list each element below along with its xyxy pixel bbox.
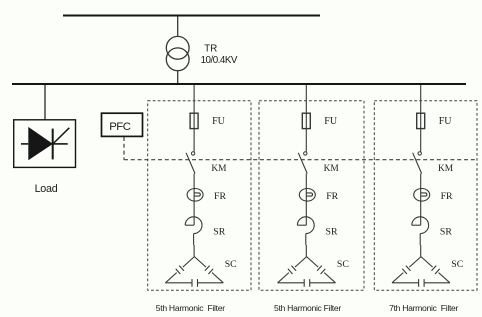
svg-text:FR: FR [326, 191, 338, 202]
top bus bar [63, 15, 320, 17]
wire: reactor to capacitor bank (branch 1) [193, 234, 195, 245]
wire through fuse FU (branch 1) [193, 113, 195, 128]
load box [14, 120, 76, 168]
svg-text:SR: SR [440, 226, 452, 237]
capacitor bank SC delta right side (branch 3) [421, 257, 433, 268]
thermal relay FR circle (branch 2) [299, 189, 315, 202]
svg-text:TR: TR [204, 43, 217, 54]
svg-text:FR: FR [441, 191, 453, 202]
wire: contactor to thermal relay (branch 3) [420, 174, 422, 189]
svg-text:FU: FU [324, 116, 338, 127]
fuse FU (branch 2) [302, 113, 310, 128]
fuse FU (branch 3) [417, 113, 425, 128]
capacitor bank SC delta right side (branch 1) [194, 257, 206, 268]
capacitor bank SC delta left side (branch 1) [183, 257, 195, 268]
svg-text:FU: FU [212, 116, 226, 127]
thermal relay FR heater element (branch 3) [421, 193, 427, 196]
dashed enclosure box, filter branch 1 [148, 101, 251, 291]
wire through thermal relay FR (branch 1) [193, 189, 195, 202]
svg-text:KM: KM [438, 164, 454, 174]
svg-text:5th Harmonic Filter: 5th Harmonic Filter [274, 303, 341, 313]
reactor SR radius line (branch 3) [412, 224, 421, 226]
thyristor cathode lead [53, 143, 68, 145]
capacitor bank SC delta bottom side (branch 1) [165, 282, 192, 284]
PFC controller box [102, 113, 143, 136]
wire: transformer TR to lower bus [177, 71, 179, 84]
reactor SR arc (branch 1) [185, 217, 202, 234]
reactor SR radius line (branch 2) [297, 224, 306, 226]
contactor KM blade (branch 1) [186, 153, 195, 174]
wire: contactor to thermal relay (branch 2) [305, 174, 307, 189]
thyristor anode lead [21, 143, 28, 145]
svg-text:SR: SR [213, 226, 225, 237]
reactor SR arc (branch 3) [412, 217, 429, 234]
svg-text:FU: FU [439, 116, 453, 127]
contactor KM blade (branch 2) [298, 153, 307, 174]
dashed control wire: horizontal to filter contactors [124, 159, 477, 161]
thermal relay FR heater element (branch 1) [194, 193, 200, 196]
dashed enclosure box, filter branch 2 [259, 101, 364, 291]
lower bus bar (0.4kV) [12, 83, 466, 85]
wire: fuse to contactor (branch 1) [193, 129, 195, 152]
svg-text:Load: Load [35, 183, 58, 195]
contactor KM fixed contact circle (branch 1) [191, 152, 194, 155]
thyristor cathode bar [52, 129, 54, 160]
thyristor gate line [53, 128, 69, 144]
capacitor bank SC delta right side (branch 2) [307, 257, 319, 268]
svg-text:PFC: PFC [109, 121, 131, 133]
svg-text:FR: FR [214, 191, 226, 202]
capacitor plates left side (branch 1) [179, 266, 184, 271]
thermal relay FR circle (branch 1) [187, 189, 203, 202]
wire: thermal relay down into reactor centre (branch 2) [305, 201, 307, 225]
capacitor plates left side (branch 2) [291, 266, 296, 271]
transformer TR secondary winding [166, 48, 189, 71]
wire: thermal relay down into reactor centre (branch 1) [193, 201, 195, 225]
capacitor plates right side (branch 2) [317, 266, 322, 271]
transformer TR primary winding [166, 36, 189, 59]
wire through fuse FU (branch 2) [305, 113, 307, 128]
contactor KM blade (branch 3) [413, 153, 422, 174]
wire: lower bus to load [44, 85, 46, 120]
svg-text:10/0.4KV: 10/0.4KV [201, 55, 238, 66]
wire: fuse to contactor (branch 3) [420, 129, 422, 152]
thermal relay FR heater element (branch 2) [306, 193, 312, 196]
svg-text:KM: KM [211, 164, 227, 174]
svg-text:SC: SC [337, 259, 349, 270]
capacitor plates right side (branch 1) [205, 266, 210, 271]
capacitor plates bottom side (branch 2) [303, 279, 305, 287]
capacitor plates left side (branch 3) [406, 266, 411, 271]
wire through thermal relay FR (branch 3) [420, 189, 422, 202]
contactor KM fixed contact circle (branch 3) [418, 152, 421, 155]
contactor KM fixed contact circle (branch 2) [304, 152, 307, 155]
reactor SR radius line (branch 1) [185, 224, 194, 226]
svg-text:SR: SR [326, 226, 338, 237]
wire through fuse FU (branch 3) [420, 113, 422, 128]
svg-text:SC: SC [451, 259, 463, 270]
wire: fuse to contactor (branch 2) [305, 129, 307, 152]
fuse FU (branch 1) [190, 113, 198, 128]
wire: lower bus into branch 2 [305, 85, 307, 113]
svg-text:5th Harmonic Filter: 5th Harmonic Filter [156, 303, 225, 313]
capacitor bank SC delta left side (branch 3) [409, 257, 421, 268]
svg-text:SC: SC [225, 259, 237, 270]
svg-text:KM: KM [324, 164, 340, 174]
capacitor bank SC delta bottom side (branch 2) [278, 282, 305, 284]
wire: thermal relay down into reactor centre (branch 3) [420, 201, 422, 225]
capacitor bank SC delta left side (branch 2) [295, 257, 307, 268]
capacitor bank SC delta bottom side (branch 3) [392, 282, 419, 284]
thermal relay FR circle (branch 3) [414, 189, 430, 202]
reactor SR arc (branch 2) [297, 217, 314, 234]
dashed control wire: PFC down [123, 137, 125, 160]
dashed enclosure box, filter branch 3 [374, 101, 477, 291]
capacitor plates bottom side (branch 3) [418, 279, 420, 287]
wire: lower bus into branch 3 [420, 85, 422, 113]
wire through thermal relay FR (branch 2) [305, 189, 307, 202]
wire: top bus to transformer TR [177, 17, 179, 37]
capacitor plates right side (branch 3) [432, 266, 437, 271]
wire: reactor to capacitor bank (branch 2) [305, 234, 307, 245]
wire: reactor to capacitor bank (branch 3) [419, 234, 421, 245]
thyristor triangle [28, 127, 53, 160]
svg-text:7th Harmonic Filter: 7th Harmonic Filter [389, 303, 458, 313]
wire: contactor to thermal relay (branch 1) [193, 174, 195, 189]
capacitor plates bottom side (branch 1) [191, 279, 193, 287]
wire: lower bus into branch 1 [193, 85, 195, 113]
